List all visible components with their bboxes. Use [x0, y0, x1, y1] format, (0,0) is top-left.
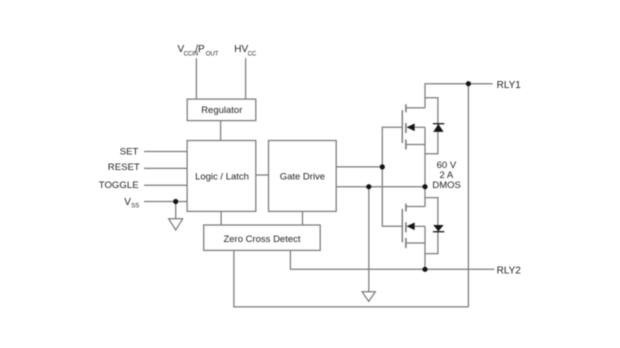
svg-text:RESET: RESET: [108, 162, 140, 173]
block Regulator: [187, 99, 256, 121]
wire node C to Q2: [424, 187, 426, 207]
wire regulator to logic/latch: [220, 121, 222, 141]
block Gate Drive: [269, 141, 337, 212]
transistor Q1 body lead: [415, 126, 425, 128]
wire SET input: [144, 151, 187, 153]
pin label HVCC: [234, 44, 257, 57]
pin label VCCIN/POUT: [178, 44, 219, 57]
transistor Q2 gate bar: [401, 209, 403, 242]
value label 60 V 2 A DMOS: [432, 160, 461, 191]
wire gate drive output 1 to node A: [336, 166, 382, 168]
wire RESET input: [144, 167, 187, 169]
wire VSS input: [144, 201, 187, 203]
svg-text:Zero Cross Detect: Zero Cross Detect: [223, 234, 300, 245]
junction node A (gate rail): [380, 164, 385, 169]
diode D2 (Q2 body diode): [433, 225, 444, 232]
svg-text:Regulator: Regulator: [201, 105, 242, 116]
svg-text:/P: /P: [195, 44, 205, 55]
svg-text:SET: SET: [120, 146, 139, 157]
wire Q1 body diode branch: [425, 98, 438, 154]
svg-text:Gate Drive: Gate Drive: [280, 172, 325, 183]
transistor Q1 channel segments: [405, 104, 407, 149]
wire node B to ground 2: [368, 187, 370, 292]
wire Q1 drain lead: [406, 107, 425, 109]
wire VSS to ground: [175, 202, 177, 219]
wire top rail RLY1: [425, 84, 493, 108]
wire Q1 source lead: [406, 144, 425, 146]
wire Q2 drain lead: [406, 242, 425, 244]
transistor Q2 body lead: [415, 225, 425, 227]
wire zero cross detect to bottom rail: [234, 250, 469, 307]
junction node B (common to ground): [366, 184, 371, 189]
wire Q2 body tie to drain: [424, 226, 426, 243]
wire right vertical RLY1 to bottom rail: [467, 84, 469, 307]
wire Q2 body diode branch: [425, 198, 438, 254]
junction VSS: [173, 199, 178, 204]
block Logic / Latch: [187, 141, 256, 212]
svg-text:HV: HV: [234, 44, 248, 55]
wire HVCC to regulator: [245, 58, 247, 99]
wire logic/latch to zero cross detect: [220, 211, 222, 225]
block Zero Cross Detect: [204, 225, 321, 250]
diode D1 (Q1 body diode): [433, 124, 444, 132]
svg-text:Logic / Latch: Logic / Latch: [195, 172, 249, 183]
wire gate drive to zero cross detect: [302, 211, 304, 225]
svg-text:OUT: OUT: [206, 51, 219, 57]
svg-text:CC: CC: [248, 51, 257, 57]
transistor Q1 gate bar: [401, 110, 403, 143]
transistor Q1 body arrow: [407, 124, 415, 132]
junction RLY1 node: [466, 81, 471, 86]
svg-text:RLY1: RLY1: [497, 80, 522, 91]
pin label VSS: [124, 197, 139, 210]
wire VCCIN to regulator: [195, 58, 197, 99]
wire logic/latch to gate drive: [256, 174, 269, 176]
wire Q1 source node to node C: [424, 127, 426, 186]
wire gate drive output 2 to node C: [336, 186, 425, 188]
transistor Q2 body arrow: [407, 223, 415, 231]
svg-text:TOGGLE: TOGGLE: [99, 180, 139, 191]
junction RLY2 node: [422, 267, 427, 272]
junction node C (source node): [422, 184, 427, 189]
wire gate rail Q1-Q2: [382, 127, 402, 226]
ground symbol 1 (VSS): [169, 219, 183, 230]
wire Q2 drain to RLY2 line: [424, 243, 426, 269]
svg-text:DMOS: DMOS: [432, 180, 461, 191]
wire Q2 source lead: [406, 206, 425, 208]
transistor Q2 channel segments: [405, 204, 407, 249]
svg-text:RLY2: RLY2: [497, 266, 522, 277]
wire TOGGLE input: [144, 184, 187, 186]
ground symbol 2 (output common): [362, 292, 375, 302]
wire zero cross detect to RLY2 line: [290, 250, 494, 269]
svg-text:SS: SS: [131, 204, 139, 210]
